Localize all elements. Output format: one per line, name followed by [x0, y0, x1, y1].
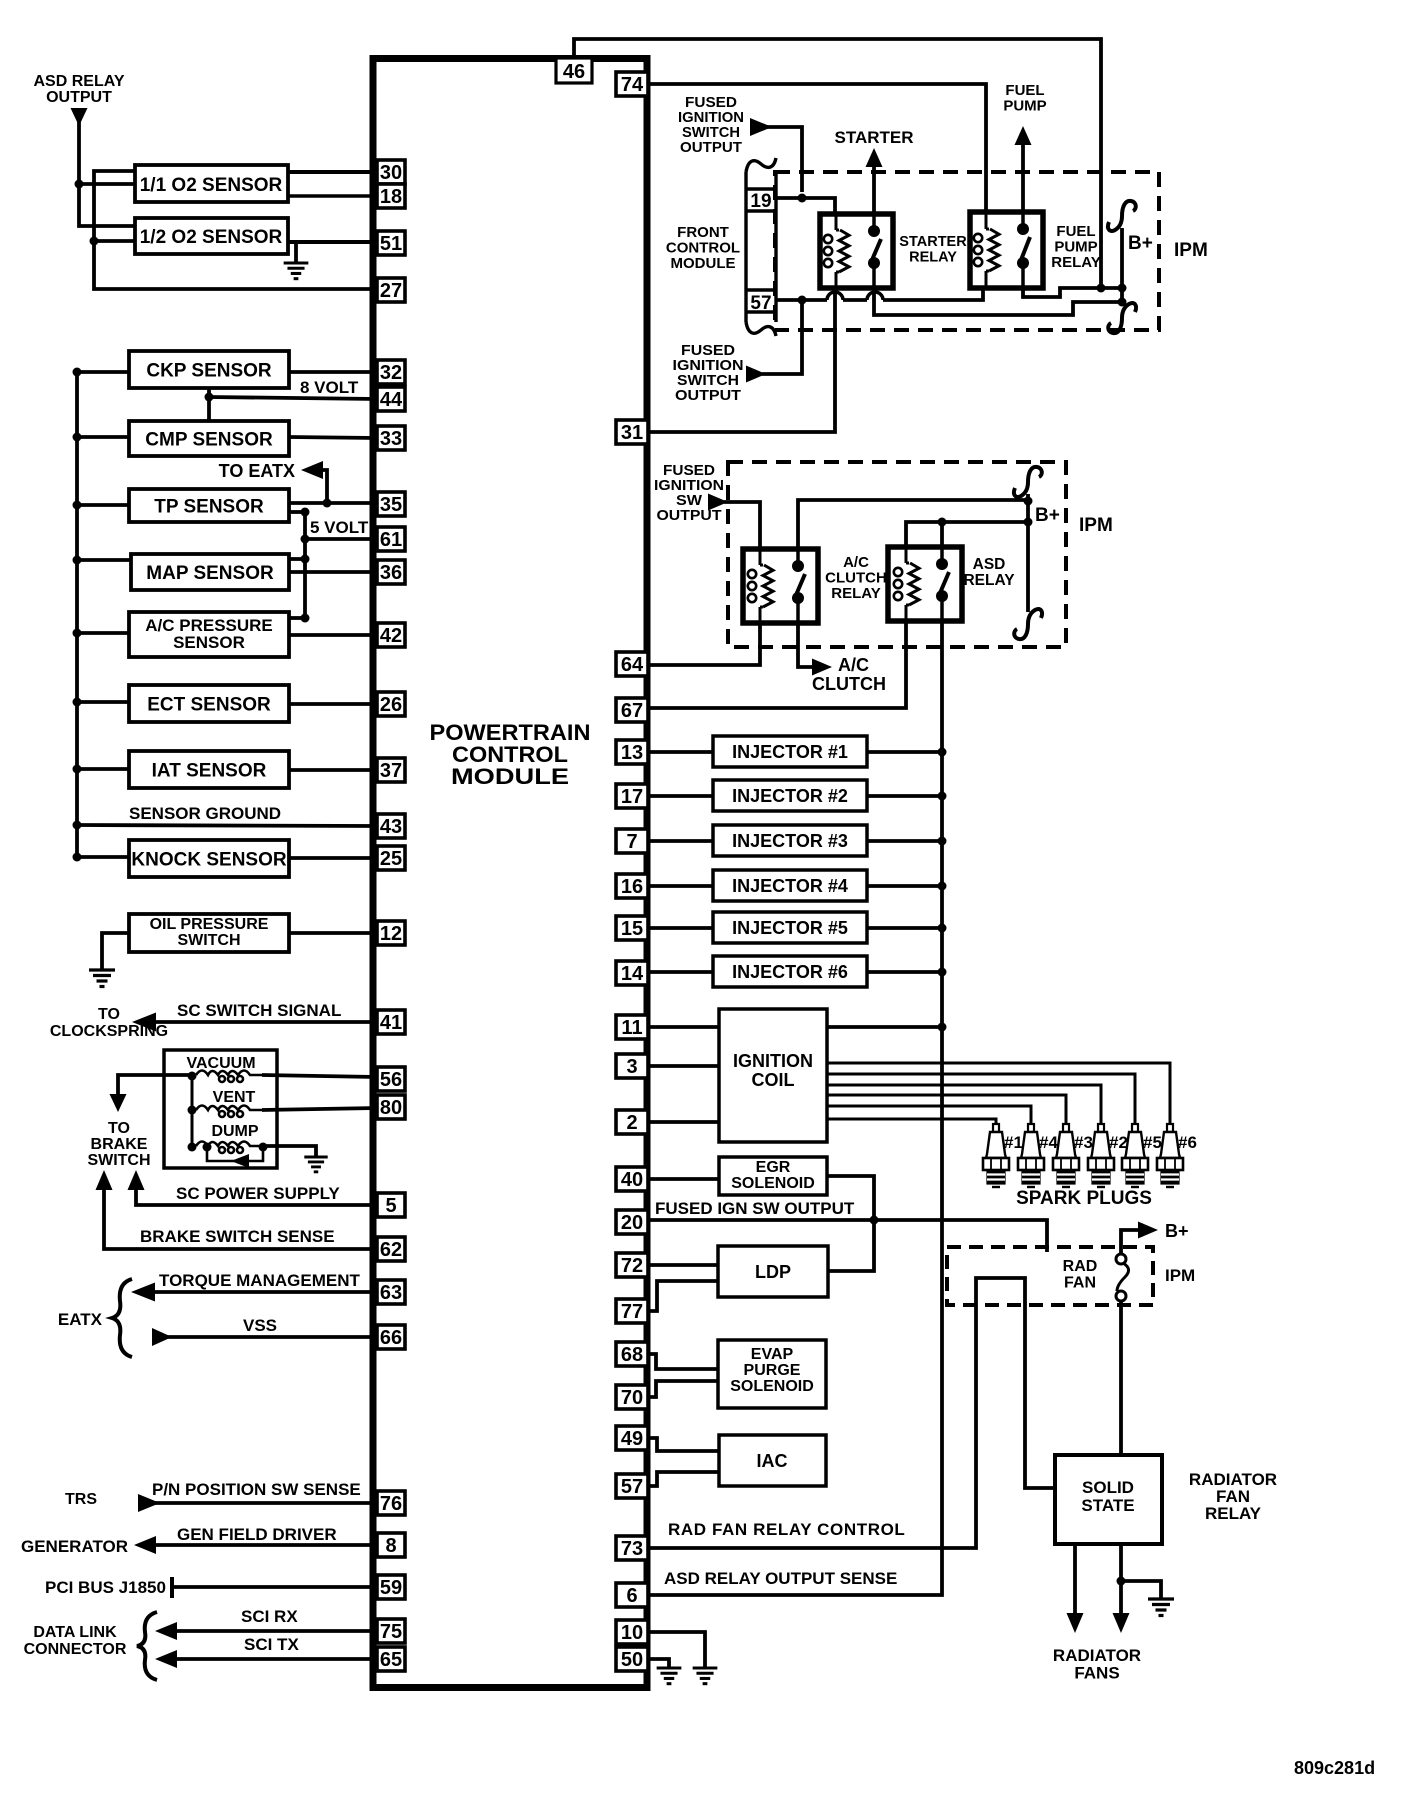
wire MAP to pin 36 — [289, 570, 377, 574]
svg-text:72: 72 — [621, 1255, 643, 1277]
wire 1/2 O2 to pin 51 — [288, 240, 377, 244]
wire injector 2 to ASD bus — [867, 794, 942, 798]
wire vent coil to pin 80 — [262, 1108, 377, 1110]
svg-text:65: 65 — [380, 1649, 402, 1671]
wire injector 6 to ASD bus — [867, 970, 942, 974]
junction injector 5 bus — [938, 924, 947, 933]
wire 1/2 O2 ground stub — [294, 242, 298, 263]
sensor MAP SENSOR box — [131, 554, 289, 590]
wire CMP to pin 33 — [289, 437, 377, 438]
wire coil tower to spark plug 6 — [827, 1063, 1170, 1125]
pin 56 PCM left — [377, 1067, 405, 1091]
svg-text:30: 30 — [380, 162, 402, 184]
wire ASD output vertical — [79, 120, 135, 226]
coil VACUUM — [196, 1071, 262, 1083]
wire trunk to TP SENSOR — [77, 503, 129, 507]
arrow TO EATX left — [301, 461, 323, 479]
spark plug #6 — [1157, 1124, 1183, 1187]
solenoid internal left bus — [191, 1076, 194, 1147]
pin 74 PCM right — [616, 72, 648, 96]
junction injector 3 bus — [938, 837, 947, 846]
svg-text:KNOCK SENSOR: KNOCK SENSOR — [131, 850, 286, 871]
svg-text:8 VOLT: 8 VOLT — [300, 378, 359, 397]
sensor CKP SENSOR box — [129, 351, 289, 388]
wire trunk to CKP SENSOR — [77, 370, 129, 374]
motor IAC box — [719, 1435, 826, 1486]
wire brake switch sense pin 62 — [104, 1186, 377, 1249]
junction 5V MAP — [301, 555, 310, 564]
svg-text:TP SENSOR: TP SENSOR — [154, 497, 264, 518]
pin 67 PCM right — [616, 698, 648, 722]
pin 13 PCM right — [616, 740, 648, 764]
wire 5 volt vertical — [303, 512, 307, 618]
wire B+ bus 2 — [1026, 494, 1030, 612]
svg-text:MAP SENSOR: MAP SENSOR — [146, 563, 274, 584]
svg-text:#6: #6 — [1178, 1133, 1197, 1152]
svg-text:DUMP: DUMP — [211, 1123, 258, 1140]
pin 63 PCM left — [377, 1280, 405, 1304]
wire SC switch signal pin 41 — [150, 1020, 377, 1024]
svg-text:36: 36 — [380, 562, 402, 584]
wire dump coil to ground — [263, 1146, 316, 1157]
wire 57-line to fuel relay coil — [883, 288, 983, 300]
svg-text:51: 51 — [380, 233, 402, 255]
svg-text:2: 2 — [626, 1112, 637, 1134]
svg-text:CLUTCH: CLUTCH — [812, 674, 886, 694]
junction ASD to 1/1 O2 — [75, 180, 84, 189]
junction vacuum coil — [188, 1072, 197, 1081]
pin 26 PCM left — [377, 692, 405, 716]
pin 10 PCM right — [616, 1620, 648, 1644]
svg-text:INJECTOR #6: INJECTOR #6 — [732, 962, 848, 982]
svg-text:IPM: IPM — [1079, 515, 1113, 536]
wire trunk to ECT SENSOR — [77, 700, 129, 704]
junction fused ign sw output line — [870, 1216, 879, 1225]
svg-text:35: 35 — [380, 494, 402, 516]
switch OIL PRESSURE SWITCH box — [129, 914, 289, 952]
svg-text:#3: #3 — [1074, 1133, 1093, 1152]
arrow VSS right — [152, 1328, 172, 1346]
svg-text:57: 57 — [621, 1476, 643, 1498]
svg-text:50: 50 — [621, 1649, 643, 1671]
pin 6 PCM right — [616, 1583, 648, 1607]
wire 57-line mid — [843, 298, 867, 302]
hop 57-line over starter coil drop — [827, 292, 843, 300]
svg-text:19: 19 — [750, 191, 771, 212]
wire 1/1 O2 to pin 30 — [288, 170, 377, 174]
svg-text:7: 7 — [626, 831, 637, 853]
svg-text:5: 5 — [385, 1195, 396, 1217]
svg-text:TRS: TRS — [65, 1491, 97, 1508]
svg-text:SC POWER SUPPLY: SC POWER SUPPLY — [176, 1184, 340, 1203]
brace EATX — [112, 1279, 132, 1357]
wire pin 20 fused ign sw output — [648, 1220, 1047, 1252]
squiggle B+ top — [1108, 201, 1136, 231]
svg-text:27: 27 — [380, 280, 402, 302]
relay A/C CLUTCH RELAY K3 — [743, 549, 818, 623]
pin 80 PCM left — [377, 1095, 405, 1119]
svg-text:43: 43 — [380, 816, 402, 838]
svg-text:B+: B+ — [1128, 233, 1153, 254]
pin 2 PCM right — [616, 1110, 648, 1134]
wire fused ign upper to node 19 — [766, 127, 802, 192]
sensor KNOCK SENSOR box — [129, 840, 289, 877]
wire fan ground — [1121, 1581, 1161, 1599]
wire TP to pin 35 — [289, 501, 377, 505]
injector INJECTOR #1 box — [713, 736, 867, 767]
wire pin 73 rad fan relay control — [648, 1278, 1055, 1548]
wire pin to injector 5 — [648, 926, 713, 930]
wire PCI bus pin 59 — [174, 1585, 377, 1589]
svg-text:#2: #2 — [1109, 1133, 1128, 1152]
junction 5V pin61 — [301, 535, 310, 544]
svg-text:57: 57 — [750, 293, 771, 314]
relay FUEL PUMP RELAY K2 — [970, 212, 1043, 288]
svg-text:8: 8 — [385, 1535, 396, 1557]
svg-text:13: 13 — [621, 742, 643, 764]
arrow fused ign sw output ac — [708, 494, 728, 511]
wire starter switch output — [874, 288, 1122, 315]
injector INJECTOR #5 box — [713, 912, 867, 943]
wire SCI TX pin 65 — [173, 1657, 377, 1661]
svg-text:GENERATOR: GENERATOR — [21, 1537, 128, 1556]
wire ACP to pin 42 — [289, 633, 377, 637]
wire CKP to pin 32 — [289, 370, 377, 374]
pin 43 PCM left — [377, 814, 405, 838]
wire pin 77 to LDP — [648, 1281, 718, 1311]
pin 25 PCM left — [377, 846, 405, 870]
wire trunk to CMP SENSOR — [77, 435, 129, 439]
wire MAP to 5V — [289, 557, 305, 561]
pin 62 PCM left — [377, 1237, 405, 1261]
junction EATX on TP wire — [323, 499, 332, 508]
pin 41 PCM left — [377, 1010, 405, 1034]
svg-text:POWERTRAINCONTROLMODULE: POWERTRAINCONTROLMODULE — [430, 720, 591, 789]
junction pin19 wire — [798, 194, 807, 203]
ground radiator fans — [1148, 1599, 1174, 1616]
pin 73 PCM right — [616, 1536, 648, 1560]
junction injector 6 bus — [938, 968, 947, 977]
injector INJECTOR #4 box — [713, 870, 867, 901]
svg-text:INJECTOR #1: INJECTOR #1 — [732, 742, 848, 762]
svg-text:SENSOR GROUND: SENSOR GROUND — [129, 804, 281, 823]
pin 77 PCM right — [616, 1299, 648, 1323]
sensor IAT SENSOR box — [129, 751, 289, 788]
svg-text:RADFAN: RADFAN — [1063, 1258, 1098, 1292]
pin 68 PCM right — [616, 1342, 648, 1366]
wire pin 74 to fuel pump relay coil — [648, 84, 986, 212]
coil DUMP — [196, 1142, 262, 1154]
arrow generator left — [134, 1536, 156, 1554]
svg-text:77: 77 — [621, 1301, 643, 1323]
svg-text:FUSEDIGNITIONSWITCHOUTPUT: FUSEDIGNITIONSWITCHOUTPUT — [673, 342, 744, 404]
svg-text:STARTER: STARTER — [834, 128, 913, 147]
wire asd tops to B+ bus2 — [906, 522, 1028, 547]
svg-text:61: 61 — [380, 529, 402, 551]
svg-text:SPARK PLUGS: SPARK PLUGS — [1016, 1188, 1152, 1209]
module SOLID STATE box — [1055, 1455, 1162, 1544]
svg-text:ASD RELAYOUTPUT: ASD RELAYOUTPUT — [34, 73, 125, 106]
svg-text:18: 18 — [380, 186, 402, 208]
arrow torque management left — [131, 1283, 155, 1302]
pin 7 PCM right — [616, 829, 648, 853]
svg-text:DATA LINKCONNECTOR: DATA LINKCONNECTOR — [24, 1624, 127, 1658]
svg-text:#1: #1 — [1004, 1133, 1023, 1152]
wire coil tower to spark plug 3 — [827, 1095, 1066, 1125]
pin 8 PCM left — [377, 1533, 405, 1557]
svg-text:EATX: EATX — [58, 1310, 103, 1329]
junction trunk pin43 — [73, 821, 82, 830]
pin 14 PCM right — [616, 961, 648, 985]
arrow ASD relay output down — [71, 108, 88, 126]
wire coil tower to spark plug 5 — [827, 1074, 1135, 1125]
wire fused ign to ac relay coil — [724, 502, 760, 549]
wire pin 40 to EGR — [648, 1177, 719, 1181]
pin 11 PCM right — [616, 1015, 648, 1039]
svg-text:41: 41 — [380, 1012, 402, 1034]
junction injector 2 bus — [938, 792, 947, 801]
svg-text:809c281d: 809c281d — [1294, 1758, 1375, 1778]
junction trunk CKP — [73, 368, 82, 377]
svg-text:PCI BUS J1850: PCI BUS J1850 — [45, 1578, 166, 1597]
pin 33 PCM left — [377, 426, 405, 450]
svg-text:#4: #4 — [1039, 1133, 1058, 1152]
wire asd switch top drop — [940, 522, 944, 547]
svg-text:37: 37 — [380, 760, 402, 782]
arrow radiator fan right — [1113, 1613, 1130, 1633]
svg-text:74: 74 — [621, 74, 644, 96]
arrow rad fan B+ — [1138, 1222, 1158, 1239]
pin 49 PCM right — [616, 1426, 648, 1450]
wire pin to injector 1 — [648, 750, 713, 754]
wire IAT to pin 37 — [289, 768, 377, 772]
squiggle B+ bottom — [1108, 303, 1136, 333]
wire asd coil to pin 67 — [648, 621, 906, 708]
svg-text:ASD RELAY OUTPUT SENSE: ASD RELAY OUTPUT SENSE — [664, 1569, 897, 1588]
wire fused ign lower to node 57 — [762, 300, 802, 374]
wire FCM pin19 to starter relay coil — [776, 198, 835, 214]
svg-text:5 VOLT: 5 VOLT — [310, 518, 369, 537]
pin 12 PCM left — [377, 921, 405, 945]
svg-text:IAT SENSOR: IAT SENSOR — [152, 761, 267, 782]
ground dump solenoid — [304, 1157, 327, 1172]
wire injector 4 to ASD bus — [867, 884, 942, 888]
solenoid plunger arrow — [207, 1147, 263, 1161]
arrow SCI TX left — [155, 1650, 177, 1668]
svg-text:FUELPUMPRELAY: FUELPUMPRELAY — [1051, 223, 1100, 271]
svg-text:P/N POSITION SW SENSE: P/N POSITION SW SENSE — [152, 1480, 361, 1499]
pin 64 PCM right — [616, 652, 648, 676]
wire pin to injector 4 — [648, 884, 713, 888]
junction dump coil right — [259, 1143, 268, 1152]
wire ac switch to clutch arrow — [798, 623, 812, 667]
svg-text:59: 59 — [380, 1577, 402, 1599]
sensor CMP SENSOR box — [129, 421, 289, 456]
wire VSS pin 66 — [165, 1335, 377, 1339]
wire pin to injector 2 — [648, 794, 713, 798]
wire fan output right — [1119, 1544, 1123, 1614]
svg-text:49: 49 — [621, 1428, 643, 1450]
wire ASD to 1/1 O2 sensor — [79, 182, 135, 186]
arrow fused ign sw output upper — [750, 118, 772, 136]
wire trunk to KNOCK SENSOR — [77, 855, 129, 859]
pin 46 connector box — [556, 58, 592, 83]
wire ASD relay output bus — [648, 621, 942, 1595]
wire 5V to pin 61 — [305, 537, 377, 541]
svg-text:62: 62 — [380, 1239, 402, 1261]
svg-text:IPM: IPM — [1165, 1266, 1195, 1285]
wire pin 50 to ground — [648, 1659, 669, 1668]
pin 15 PCM right — [616, 916, 648, 940]
pin 61 PCM left — [377, 527, 405, 551]
arrow to brake switch down — [110, 1094, 127, 1112]
junction 5V top — [301, 508, 310, 517]
wire pin to injector 3 — [648, 839, 713, 843]
wire pin 3 to coil — [648, 1064, 719, 1068]
svg-text:VENT: VENT — [213, 1089, 256, 1106]
wire P/N position pin 76 — [155, 1501, 377, 1505]
squiggle B+2 top — [1014, 467, 1042, 497]
wire SCI RX pin 75 — [173, 1629, 377, 1633]
spark plug #4 — [1018, 1124, 1044, 1187]
arrow fused ign sw output lower — [746, 366, 766, 383]
pin 3 PCM right — [616, 1054, 648, 1078]
svg-text:FUSEDIGNITIONSWITCHOUTPUT: FUSEDIGNITIONSWITCHOUTPUT — [678, 94, 744, 156]
wire ECT to pin 26 — [289, 702, 377, 706]
injector INJECTOR #2 box — [713, 780, 867, 811]
wire ac switch to B+ bus2 — [798, 500, 1028, 549]
junction 1/2 O2 lower to trunk — [90, 237, 99, 246]
wire injector 1 to ASD bus — [867, 750, 942, 754]
wire 8 volt to pin 44 — [209, 397, 377, 399]
junction injector 4 bus — [938, 882, 947, 891]
junction coil bus — [938, 1023, 947, 1032]
wire vacuum coil to pin 56 — [262, 1075, 377, 1077]
wire trunk to IAT SENSOR — [77, 767, 129, 771]
wire sensor ground to pin 43 — [77, 825, 377, 826]
wire EGR to LDP link — [827, 1176, 874, 1271]
solenoid block VACUUM VENT DUMP box — [164, 1050, 277, 1168]
wire pin 57 to IAC — [648, 1472, 719, 1486]
svg-text:LDP: LDP — [755, 1262, 791, 1282]
wire coil tower to spark plug 2 — [827, 1106, 1031, 1125]
pin 42 PCM left — [377, 623, 405, 647]
injector INJECTOR #3 box — [713, 825, 867, 856]
sensor A/C PRESSURE box — [129, 612, 289, 657]
pin 18 PCM left — [377, 184, 405, 208]
svg-text:B+: B+ — [1035, 505, 1060, 526]
svg-text:76: 76 — [380, 1493, 402, 1515]
svg-text:3: 3 — [626, 1056, 637, 1078]
wire FCM pin57 run — [776, 298, 827, 302]
pin 20 PCM right — [616, 1210, 648, 1234]
svg-text:17: 17 — [621, 786, 643, 808]
svg-text:BRAKE SWITCH SENSE: BRAKE SWITCH SENSE — [140, 1227, 335, 1246]
svg-text:63: 63 — [380, 1282, 402, 1304]
terminal bar PCI bus — [170, 1577, 174, 1598]
svg-text:GEN FIELD DRIVER: GEN FIELD DRIVER — [177, 1525, 337, 1544]
junction B+ bus upper — [1118, 284, 1127, 293]
spark plug #5 — [1122, 1124, 1148, 1187]
svg-text:FUSEDIGNITIONSWOUTPUT: FUSEDIGNITIONSWOUTPUT — [654, 462, 724, 524]
arrow starter up — [866, 148, 883, 167]
wire CKP-CMP 8V vertical — [207, 388, 211, 421]
arrow TRS right — [138, 1494, 160, 1512]
pin 57 PCM right — [616, 1474, 648, 1498]
wire fuel switch output to B+ — [1023, 288, 1122, 297]
svg-text:FUELPUMP: FUELPUMP — [1003, 82, 1046, 115]
wire oil pressure to pin 12 — [289, 931, 377, 935]
wire pin to injector 6 — [648, 970, 713, 974]
sensor TP SENSOR box — [129, 489, 289, 522]
ground pin 10 — [693, 1668, 718, 1684]
svg-text:32: 32 — [380, 362, 402, 384]
junction dump coil left2 — [203, 1143, 212, 1152]
svg-text:73: 73 — [621, 1538, 643, 1560]
svg-text:20: 20 — [621, 1212, 643, 1234]
arrow fuel pump up — [1015, 126, 1032, 145]
svg-text:IPM: IPM — [1174, 240, 1208, 261]
junction 5V ACP — [301, 614, 310, 623]
wire ac coil to pin 64 — [648, 623, 760, 665]
svg-text:6: 6 — [626, 1585, 637, 1607]
svg-text:12: 12 — [380, 923, 402, 945]
pin 31 PCM right — [616, 420, 648, 444]
svg-text:56: 56 — [380, 1069, 402, 1091]
wire pin46 to B+ top run — [574, 39, 1101, 288]
svg-text:RAD FAN RELAY CONTROL: RAD FAN RELAY CONTROL — [668, 1520, 905, 1539]
wire 1/2 O2 lower-left to trunk — [94, 239, 135, 243]
svg-text:VSS: VSS — [243, 1316, 277, 1335]
wire B+ bus 1 — [1120, 228, 1124, 306]
arrow SCI RX left — [155, 1622, 177, 1640]
junction injector 1 bus — [938, 748, 947, 757]
wire 1/1 O2 to pin 18 — [288, 194, 377, 198]
svg-text:TORQUE MANAGEMENT: TORQUE MANAGEMENT — [159, 1271, 360, 1290]
IPM lower dashed box — [728, 462, 1066, 647]
wire gen field driver pin 8 — [152, 1543, 377, 1547]
junction B+ bus lower — [1118, 298, 1127, 307]
junction 8 volt — [205, 393, 214, 402]
pin 59 PCM left — [377, 1575, 405, 1599]
svg-text:IAC: IAC — [757, 1451, 788, 1471]
arrow radiator fan left — [1067, 1613, 1084, 1633]
wire coil tower to spark plug 4 — [827, 1085, 1101, 1125]
wire TO EATX drop — [320, 470, 327, 503]
wire trunk to MAP SENSOR — [77, 558, 131, 562]
sensor 1/2 O2 SENSOR box — [135, 218, 288, 254]
svg-text:68: 68 — [621, 1344, 643, 1366]
junction asd switch top — [938, 518, 947, 527]
svg-text:SC SWITCH SIGNAL: SC SWITCH SIGNAL — [177, 1001, 341, 1020]
wire pin 11 to coil — [648, 1025, 719, 1029]
pin 50 PCM right — [616, 1647, 648, 1671]
pin 72 PCM right — [616, 1253, 648, 1277]
wire vacuum to brake switch — [118, 1075, 192, 1096]
svg-text:14: 14 — [621, 963, 644, 985]
svg-text:67: 67 — [621, 700, 643, 722]
junction trunk ACP — [73, 629, 82, 638]
spark plug #3 — [1053, 1124, 1079, 1187]
pin 70 PCM right — [616, 1385, 648, 1409]
wire pin 2 to coil — [648, 1120, 719, 1124]
pin 30 PCM left — [377, 160, 405, 184]
svg-text:46: 46 — [563, 61, 585, 83]
svg-text:44: 44 — [380, 389, 403, 411]
pin 37 PCM left — [377, 758, 405, 782]
pin 32 PCM left — [377, 360, 405, 384]
junction vent coil — [188, 1106, 197, 1115]
